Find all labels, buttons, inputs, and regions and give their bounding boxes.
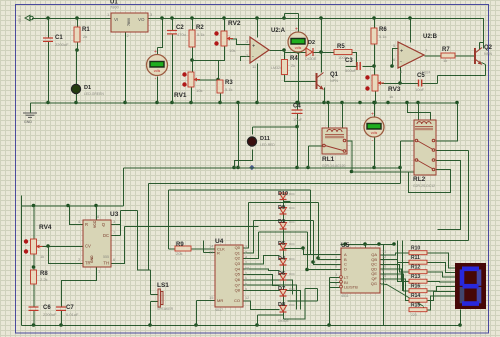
svg-text:LM324: LM324 bbox=[271, 66, 282, 70]
svg-text:220: 220 bbox=[411, 313, 417, 317]
svg-text:7: 7 bbox=[335, 250, 337, 254]
svg-text:C3: C3 bbox=[345, 58, 353, 64]
svg-text:0.01uF: 0.01uF bbox=[66, 312, 79, 317]
svg-text:D6: D6 bbox=[278, 271, 285, 277]
svg-text:D04: D04 bbox=[289, 287, 295, 291]
svg-text:10: 10 bbox=[245, 266, 249, 270]
svg-text:13: 13 bbox=[382, 250, 386, 254]
svg-text:Q2: Q2 bbox=[484, 45, 493, 51]
svg-text:4017: 4017 bbox=[215, 308, 223, 312]
svg-text:R1: R1 bbox=[82, 27, 90, 33]
svg-text:LED-GREEN: LED-GREEN bbox=[84, 92, 104, 96]
svg-text:RV2: RV2 bbox=[228, 20, 241, 27]
svg-text:12: 12 bbox=[382, 255, 386, 259]
svg-text:DIODE: DIODE bbox=[278, 319, 289, 323]
svg-text:D04: D04 bbox=[289, 303, 295, 307]
svg-text:R5: R5 bbox=[337, 44, 345, 50]
svg-text:D5: D5 bbox=[278, 241, 285, 247]
svg-text:3: 3 bbox=[335, 273, 337, 277]
svg-text:NPN: NPN bbox=[330, 79, 338, 83]
svg-text:D3: D3 bbox=[278, 219, 285, 225]
svg-text:D04: D04 bbox=[289, 192, 295, 196]
svg-text:NPN: NPN bbox=[484, 52, 492, 56]
svg-text:R4: R4 bbox=[290, 56, 298, 62]
svg-text:C4: C4 bbox=[293, 104, 301, 110]
svg-text:D04: D04 bbox=[289, 206, 295, 210]
svg-text:DIODE: DIODE bbox=[305, 57, 317, 61]
svg-text:10k: 10k bbox=[196, 88, 202, 93]
svg-text:D4: D4 bbox=[278, 256, 286, 262]
svg-text:LS1: LS1 bbox=[157, 282, 169, 289]
svg-text:1k: 1k bbox=[443, 58, 447, 63]
svg-text:1: 1 bbox=[335, 255, 337, 259]
svg-text:15: 15 bbox=[382, 274, 386, 278]
svg-text:2200uF: 2200uF bbox=[43, 312, 57, 317]
svg-text:1: 1 bbox=[245, 272, 247, 276]
svg-text:R9: R9 bbox=[176, 242, 184, 248]
svg-text:D10: D10 bbox=[278, 191, 288, 197]
svg-text:R15: R15 bbox=[411, 303, 420, 309]
svg-text:Q1: Q1 bbox=[330, 72, 339, 78]
svg-text:TH: TH bbox=[103, 261, 109, 266]
svg-text:R6: R6 bbox=[379, 27, 387, 33]
svg-text:D2: D2 bbox=[308, 40, 315, 46]
svg-text:C5: C5 bbox=[417, 73, 425, 79]
svg-text:11: 11 bbox=[382, 260, 386, 264]
svg-text:5.1k: 5.1k bbox=[197, 32, 205, 37]
svg-text:7800: 7800 bbox=[127, 18, 131, 26]
svg-text:5: 5 bbox=[335, 283, 337, 287]
svg-text:RL2: RL2 bbox=[413, 176, 426, 183]
svg-text:SPEAKER: SPEAKER bbox=[157, 307, 174, 311]
svg-text:D8: D8 bbox=[278, 302, 285, 308]
svg-text:LED-RED: LED-RED bbox=[260, 143, 275, 147]
svg-text:6: 6 bbox=[245, 282, 247, 286]
svg-text:1k: 1k bbox=[389, 94, 393, 99]
svg-text:RL1: RL1 bbox=[322, 156, 335, 163]
svg-text:10uF: 10uF bbox=[415, 87, 425, 92]
svg-text:VO: VO bbox=[138, 17, 145, 22]
svg-text:R12: R12 bbox=[411, 265, 420, 271]
svg-text:10: 10 bbox=[382, 264, 386, 268]
svg-text:R11: R11 bbox=[411, 255, 420, 261]
svg-text:9: 9 bbox=[382, 269, 384, 273]
svg-text:5.1k: 5.1k bbox=[225, 87, 233, 92]
svg-text:U5: U5 bbox=[341, 242, 350, 249]
svg-text:2200uF: 2200uF bbox=[55, 42, 69, 47]
svg-text:U2:A: U2:A bbox=[271, 28, 286, 34]
svg-text:4: 4 bbox=[245, 256, 247, 260]
svg-text:6: 6 bbox=[335, 264, 337, 268]
svg-text:Q0: Q0 bbox=[235, 245, 241, 250]
svg-text:Q7: Q7 bbox=[235, 282, 241, 287]
svg-text:4: 4 bbox=[335, 278, 337, 282]
svg-text:2: 2 bbox=[335, 260, 337, 264]
svg-text:14: 14 bbox=[209, 244, 214, 249]
svg-text:U4: U4 bbox=[215, 238, 224, 245]
svg-text:D: D bbox=[344, 266, 347, 271]
svg-text:Q8: Q8 bbox=[235, 288, 241, 293]
svg-text:U2:B: U2:B bbox=[423, 34, 438, 40]
svg-text:R14: R14 bbox=[411, 293, 420, 299]
svg-text:1k: 1k bbox=[40, 254, 44, 259]
svg-text:15: 15 bbox=[209, 295, 214, 300]
svg-text:R13: R13 bbox=[411, 274, 420, 280]
svg-text:7: 7 bbox=[245, 261, 247, 265]
svg-text:5.1k: 5.1k bbox=[379, 34, 387, 39]
svg-text:D04: D04 bbox=[289, 220, 295, 224]
svg-text:RV1: RV1 bbox=[174, 92, 187, 99]
svg-text:Q6: Q6 bbox=[235, 277, 241, 282]
svg-text:D04: D04 bbox=[289, 272, 295, 276]
svg-text:LE/STB: LE/STB bbox=[344, 285, 358, 290]
svg-text:10k: 10k bbox=[229, 48, 235, 53]
svg-text:+: + bbox=[400, 48, 403, 54]
svg-text:Q2: Q2 bbox=[235, 256, 241, 261]
svg-text:D04: D04 bbox=[289, 257, 295, 261]
svg-text:volts: volts bbox=[295, 46, 302, 50]
svg-text:G2R-14-AC120: G2R-14-AC120 bbox=[322, 164, 345, 168]
svg-text:-: - bbox=[400, 59, 402, 65]
svg-text:5: 5 bbox=[245, 277, 247, 281]
svg-text:VCC: VCC bbox=[93, 220, 97, 228]
svg-text:D1: D1 bbox=[84, 85, 91, 91]
svg-text:U3: U3 bbox=[110, 211, 119, 218]
svg-text:9: 9 bbox=[245, 288, 247, 292]
svg-text:555: 555 bbox=[103, 255, 109, 259]
svg-text:2k: 2k bbox=[291, 63, 295, 68]
svg-text:GND: GND bbox=[90, 255, 94, 263]
svg-text:10uF: 10uF bbox=[293, 117, 303, 122]
svg-text:4511: 4511 bbox=[341, 294, 349, 298]
svg-text:R3: R3 bbox=[225, 80, 233, 86]
svg-text:C6: C6 bbox=[43, 305, 51, 311]
svg-text:volts: volts bbox=[154, 69, 161, 73]
svg-text:R: R bbox=[217, 251, 220, 256]
svg-text:RV4: RV4 bbox=[39, 224, 52, 231]
svg-text:R16: R16 bbox=[411, 284, 420, 290]
svg-text:470u: 470u bbox=[177, 32, 186, 37]
svg-text:D11: D11 bbox=[260, 136, 270, 142]
svg-text:Q3: Q3 bbox=[235, 261, 241, 266]
svg-text:+: + bbox=[295, 27, 298, 33]
svg-text:MR: MR bbox=[217, 298, 223, 303]
svg-text:C1: C1 bbox=[55, 35, 63, 41]
svg-text:RV3: RV3 bbox=[388, 86, 401, 93]
svg-text:D7: D7 bbox=[278, 286, 285, 292]
svg-text:volts: volts bbox=[371, 131, 378, 135]
svg-text:+: + bbox=[252, 43, 255, 49]
svg-text:2.2k: 2.2k bbox=[40, 277, 48, 282]
svg-text:2k: 2k bbox=[83, 34, 87, 39]
svg-text:D9: D9 bbox=[278, 205, 285, 211]
svg-text:14: 14 bbox=[382, 279, 386, 283]
svg-text:Q4: Q4 bbox=[235, 266, 241, 271]
svg-text:VI: VI bbox=[114, 17, 118, 22]
svg-text:GND: GND bbox=[24, 120, 32, 124]
svg-text:CV: CV bbox=[85, 244, 91, 249]
svg-text:R10: R10 bbox=[411, 246, 420, 252]
svg-text:D04: D04 bbox=[289, 242, 295, 246]
svg-text:CO: CO bbox=[234, 298, 240, 303]
svg-text:3: 3 bbox=[245, 245, 247, 249]
svg-text:12: 12 bbox=[245, 296, 249, 300]
svg-text:QG: QG bbox=[371, 281, 377, 286]
svg-text:13: 13 bbox=[209, 250, 214, 255]
svg-text:C2: C2 bbox=[176, 25, 184, 31]
svg-text:20k: 20k bbox=[176, 251, 182, 256]
svg-text:7800: 7800 bbox=[110, 5, 120, 10]
svg-text:+: + bbox=[371, 112, 374, 118]
svg-text:2: 2 bbox=[245, 250, 247, 254]
svg-text:R7: R7 bbox=[442, 47, 450, 53]
svg-text:+88.8: +88.8 bbox=[18, 15, 22, 24]
svg-text:G2R-2S-DC12: G2R-2S-DC12 bbox=[413, 184, 435, 188]
svg-text:+: + bbox=[154, 49, 157, 55]
svg-text:DC: DC bbox=[103, 233, 109, 238]
svg-text:-: - bbox=[252, 54, 254, 60]
svg-text:500uF: 500uF bbox=[345, 68, 357, 73]
svg-text:C7: C7 bbox=[66, 305, 74, 311]
svg-text:Q1: Q1 bbox=[235, 250, 241, 255]
svg-text:R: R bbox=[85, 222, 88, 227]
svg-text:Q5: Q5 bbox=[235, 272, 241, 277]
svg-text:R2: R2 bbox=[196, 25, 204, 31]
